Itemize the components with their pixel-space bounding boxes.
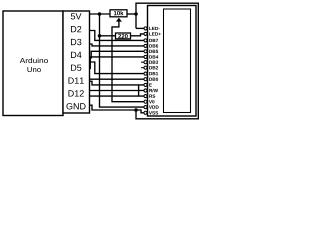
pin D3: [71, 39, 76, 45]
wire GND pin to bottom rail: [90, 105, 137, 110]
LCD pin DB3: [144, 61, 147, 64]
LCD pin DB2: [144, 66, 147, 69]
wire jog to VSS pin: [136, 110, 144, 113]
LCD pin DB5: [144, 50, 147, 53]
pin D11: [68, 77, 73, 83]
wire D12 to RS: [90, 95, 144, 97]
node 220 junction: [98, 34, 102, 38]
wire E to RS vertical link: [138, 85, 140, 96]
LCD pin DB7: [144, 39, 147, 42]
wire 5V pin to pot: [90, 13, 111, 15]
LCD pin V0: [144, 100, 147, 103]
LCD pin DB1: [144, 72, 147, 75]
wire to LED- pin: [136, 27, 144, 29]
wire D2 to DB7: [90, 31, 144, 41]
node 5V junction: [98, 12, 102, 16]
pin header box: [63, 11, 90, 113]
wire pot wiper to V0 pin: [112, 21, 144, 102]
pin D5: [71, 65, 76, 71]
potentiometer R1 10k: [110, 10, 127, 17]
pin D4: [71, 52, 76, 58]
wire 5V rail down to VDD pin: [100, 14, 144, 107]
Arduino Uno U1: [3, 11, 63, 116]
wire D5 to DB4: [90, 57, 144, 69]
wire D4 to DB5: [90, 51, 144, 58]
pin D12: [68, 90, 73, 96]
wire D3 to DB6: [90, 44, 144, 46]
LCD pin DB0: [144, 78, 147, 81]
node pot-GND junction: [134, 12, 138, 16]
wire 220 right lead to LED+ pin: [131, 34, 144, 36]
wire D11 to E: [90, 81, 144, 85]
LCD pin VSS: [144, 111, 147, 114]
LCD screen inner box: [164, 9, 191, 113]
LCD pin LED+: [144, 32, 147, 35]
LCD pin VDD: [144, 106, 147, 109]
wire to R/W: [90, 90, 144, 92]
pin GND: [66, 103, 72, 109]
node GND bottom junction: [134, 108, 138, 112]
wire GND wrap-around: [136, 3, 198, 119]
LCD pin DB4: [144, 55, 147, 58]
LCD module box: [148, 6, 197, 117]
LCD pin RS: [144, 95, 147, 98]
wire pot right lead: [127, 13, 136, 15]
wire to DB1: [90, 62, 144, 74]
pin tick DB2: [141, 67, 144, 69]
LCD pin E: [144, 83, 147, 86]
LCD pin DB6: [144, 44, 147, 47]
LCD pin LED-: [144, 27, 147, 30]
resistor R2 220: [116, 33, 131, 39]
pot wiper arrow: [116, 18, 122, 22]
pin tick DB3: [141, 61, 144, 63]
wire 220 left lead: [100, 35, 116, 37]
pin 5V: [71, 13, 75, 19]
LCD pin R/W: [144, 89, 147, 92]
wire to DB0: [90, 78, 144, 80]
pin D2: [71, 26, 76, 32]
